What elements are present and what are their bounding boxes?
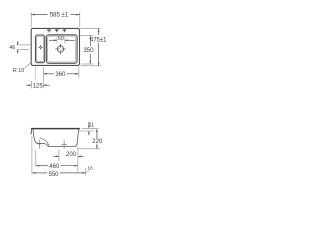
section: background bowl edge slope bbox=[40, 138, 50, 146]
R10 leader bbox=[25, 63, 31, 69]
dim 200 left tick bbox=[58, 150, 60, 161]
svg-text:550: 550 bbox=[48, 172, 59, 178]
left small bowl (plan) bbox=[36, 35, 45, 63]
dim 460 left tick bbox=[35, 150, 37, 166]
sink outer rim (plan view) bbox=[31, 28, 79, 65]
dim 50 ticks bbox=[56, 38, 58, 44]
svg-text:585 ±1: 585 ±1 bbox=[50, 13, 69, 19]
dim 125 arrows bbox=[26, 84, 31, 86]
svg-text:18: 18 bbox=[87, 166, 93, 172]
dim 360 line+arrows bbox=[44, 73, 79, 75]
section: drain cross 2 bbox=[61, 140, 67, 149]
dim 475 ext lines bbox=[80, 27, 100, 29]
dim 50 arrows bbox=[49, 39, 57, 41]
main bowl (plan) bbox=[46, 35, 77, 64]
tap hole plus 2 bbox=[55, 28, 59, 32]
svg-text:350: 350 bbox=[83, 48, 94, 54]
right wall ext down bbox=[77, 147, 79, 174]
dim 550 line+arrows bbox=[32, 172, 85, 174]
svg-text:11: 11 bbox=[88, 123, 94, 129]
tap hole plus 1 bbox=[47, 28, 51, 32]
svg-text:220: 220 bbox=[92, 139, 103, 145]
dim 18 stub bbox=[86, 171, 89, 173]
svg-text:125: 125 bbox=[33, 83, 44, 89]
dim 350 ext lines bbox=[78, 34, 93, 36]
svg-text:R 10: R 10 bbox=[13, 68, 24, 74]
dim 220 line+arrows bbox=[96, 129, 98, 148]
mystery ext line left bowl bbox=[34, 66, 36, 80]
svg-text:360: 360 bbox=[55, 72, 66, 78]
left bowl inner contour bbox=[37, 36, 44, 62]
tap hole plus 3 bbox=[62, 28, 66, 32]
svg-text:200: 200 bbox=[66, 152, 77, 158]
dim 460 line+arrows bbox=[36, 165, 78, 167]
dim 550 right tick bbox=[85, 168, 87, 176]
svg-text:46: 46 bbox=[9, 45, 15, 51]
dim 360 ticks bbox=[42, 67, 44, 88]
section: bottom ext line right bbox=[79, 148, 101, 150]
svg-text:50: 50 bbox=[58, 36, 64, 42]
section: flange bottom ext right bbox=[79, 130, 94, 132]
svg-text:475±1: 475±1 bbox=[90, 37, 107, 43]
dim 46 arrows bbox=[17, 41, 19, 45]
drain crosshair main bowl bbox=[55, 44, 66, 55]
dim 200 arrows bbox=[53, 155, 58, 157]
dim 125 left ext bbox=[31, 81, 33, 89]
dim 475 line+arrows bbox=[98, 29, 100, 66]
star symbol left bowl bbox=[38, 45, 43, 50]
section: top surface thin extension right bbox=[82, 128, 99, 130]
dim 585 ext lines bbox=[30, 12, 32, 27]
dim 11 arrows bbox=[88, 122, 90, 128]
section: left inner wall + main floor + step + deep floor + right wall bbox=[33, 129, 79, 146]
dim 46 ext lines bbox=[17, 44, 32, 46]
dim 350 line+arrows bbox=[89, 36, 91, 64]
dim 550 left tick bbox=[31, 136, 33, 174]
dim 585 line+arrows bbox=[31, 14, 79, 16]
section: top surface thick line bbox=[31, 128, 80, 130]
section: drain cross 1 bbox=[37, 140, 42, 149]
main bowl inner contour bbox=[48, 36, 76, 62]
svg-text:460: 460 bbox=[49, 164, 60, 170]
section: left lip J-hook bbox=[30, 129, 31, 134]
